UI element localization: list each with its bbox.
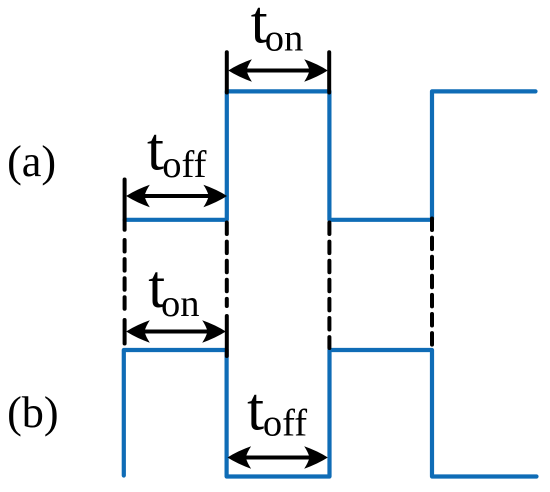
- tick left of ton arrow (a): [225, 52, 229, 92]
- dashed alignment line x1: [123, 240, 127, 309]
- label ton (b): [148, 254, 199, 325]
- arrow toff (a): [126, 185, 227, 207]
- tick right of ton arrow (b): [225, 316, 229, 356]
- waveform (a) trace: [125, 91, 536, 219]
- tick right of ton arrow (a): [327, 52, 331, 92]
- svg-text:(b): (b): [7, 388, 59, 437]
- arrow toff (b): [228, 446, 328, 468]
- label toff (a): [147, 117, 207, 186]
- waveform (b) trace: [124, 350, 537, 477]
- dashed alignment line x3: [327, 223, 331, 349]
- arrow ton (a): [228, 59, 327, 81]
- svg-text:off: off: [263, 403, 307, 445]
- tick left of toff arrow (a): [123, 180, 127, 230]
- arrow ton (b): [126, 320, 226, 342]
- label ton (a): [251, 0, 303, 60]
- tick left of ton arrow (b): [123, 320, 127, 344]
- label toff (b): [247, 377, 307, 445]
- svg-text:on: on: [161, 283, 200, 325]
- dashed alignment line x2: [225, 223, 229, 307]
- svg-text:(a): (a): [7, 137, 56, 186]
- svg-text:t: t: [247, 377, 264, 444]
- dashed alignment line x4: [430, 219, 434, 348]
- svg-text:off: off: [162, 144, 206, 186]
- svg-text:on: on: [265, 18, 304, 60]
